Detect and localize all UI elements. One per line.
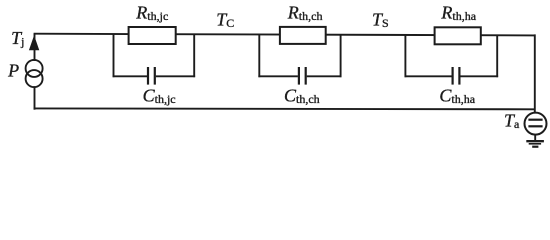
svg-text:Rth,ha: Rth,ha: [440, 3, 476, 23]
wire: block2 right stub: [340, 34, 342, 77]
resistor Rth,jc (box on top rail): [129, 27, 176, 44]
svg-text:Ta: Ta: [504, 111, 520, 131]
svg-text:Cth,ch: Cth,ch: [284, 86, 320, 106]
wire: right rail from top rail down to Ta source: [534, 34, 536, 112]
wire: block3 left stub: [404, 35, 406, 78]
wire: block1 right stub: [193, 34, 195, 77]
wire: block3 capacitor branch right lead: [460, 75, 498, 77]
wire: block3 capacitor branch left lead: [405, 75, 452, 77]
svg-text:Cth,jc: Cth,jc: [143, 86, 176, 106]
svg-text:Rth,jc: Rth,jc: [135, 3, 168, 23]
svg-text:Tj: Tj: [11, 28, 24, 48]
wire: stub from Ta source to ground: [534, 135, 536, 141]
resistor Rth,ch (box on top rail): [280, 27, 326, 44]
wire: top rail from Tj node to right corner: [34, 34, 535, 36]
capacitor Cth,ch (parallel plates): [299, 67, 306, 85]
wire: block2 left stub: [258, 34, 260, 77]
wire: block3 right stub: [496, 35, 498, 77]
wire: block1 left stub: [113, 34, 115, 78]
wire: block1 capacitor branch right lead: [156, 75, 195, 77]
wire: left rail lower segment (current source to bottom rail): [34, 86, 36, 109]
svg-text:Cth,ha: Cth,ha: [439, 86, 475, 106]
current source P (two interlocking circles with upward arrow): [26, 35, 43, 87]
wire: bottom rail from Tj branch bottom to Ta node: [34, 107, 536, 110]
voltage source Ta: ambient temperature source (circle with two bars): [525, 113, 547, 135]
wire: block2 capacitor branch right lead: [307, 75, 342, 77]
svg-text:Rth,ch: Rth,ch: [287, 3, 323, 23]
svg-text:TS: TS: [372, 10, 389, 30]
wire: block1 capacitor branch left lead: [113, 75, 147, 77]
capacitor Cth,ha (parallel plates): [453, 67, 460, 85]
svg-text:P: P: [7, 60, 19, 80]
wire: block2 capacitor branch left lead: [258, 75, 298, 77]
capacitor Cth,jc (parallel plates): [148, 67, 155, 85]
ground: [526, 141, 544, 147]
resistor Rth,ha (box on top rail): [435, 27, 481, 44]
svg-text:TC: TC: [216, 10, 234, 30]
wire: left rail upper segment (current source to Tj node): [34, 34, 36, 61]
